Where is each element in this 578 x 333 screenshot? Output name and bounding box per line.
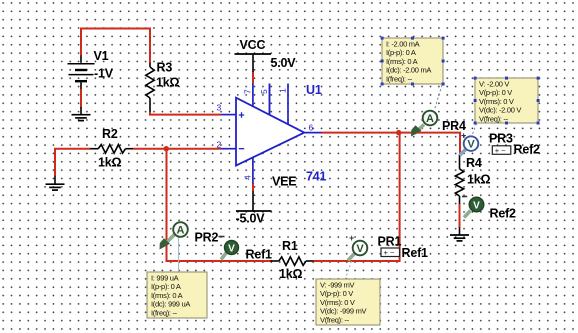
svg-text:R2: R2 xyxy=(102,127,118,141)
svg-text:Ref2: Ref2 xyxy=(490,207,517,221)
ground (below R4) xyxy=(450,227,469,241)
svg-text:VCC: VCC xyxy=(240,38,266,52)
svg-text:741: 741 xyxy=(306,170,327,184)
probe PR1 (voltage) xyxy=(348,233,367,261)
measurement box PR2 xyxy=(147,272,207,318)
ground (R2 left) xyxy=(46,176,65,191)
svg-text:I(p-p): 0 A: I(p-p): 0 A xyxy=(386,48,416,57)
probe Ref2 (green voltage probe on wire) xyxy=(462,197,484,218)
svg-text:V(p-p): 0 V: V(p-p): 0 V xyxy=(320,289,353,298)
svg-text:A: A xyxy=(426,113,434,125)
VEE power symbol xyxy=(236,210,272,212)
svg-text:-5.0V: -5.0V xyxy=(236,212,266,226)
resistor R1 xyxy=(271,257,314,266)
svg-text:4: 4 xyxy=(243,175,253,180)
wire V1 minus to ground xyxy=(80,88,82,108)
svg-text:I(rms): 0 A: I(rms): 0 A xyxy=(151,291,183,300)
wire R2 right to op-amp pin 2 xyxy=(133,148,222,150)
leader line box1 to PR4 xyxy=(435,85,443,110)
svg-text:PR2: PR2 xyxy=(195,231,219,245)
resistor R3 xyxy=(146,63,154,112)
resistor R4 xyxy=(455,155,463,204)
svg-text:V(rms): 0 V: V(rms): 0 V xyxy=(479,97,514,106)
wire VCC to pin 7 xyxy=(252,72,254,84)
node junction feedback/R2 xyxy=(164,146,169,151)
leader line box4 to PR1 xyxy=(346,261,352,279)
svg-text:V(dc): -999 mV: V(dc): -999 mV xyxy=(320,307,367,316)
svg-text:3: 3 xyxy=(217,103,222,113)
svg-text:+: + xyxy=(349,233,354,243)
wire R2 left to ground xyxy=(55,149,91,176)
svg-text:A: A xyxy=(177,225,185,237)
svg-text:I(dc): 999 uA: I(dc): 999 uA xyxy=(151,300,190,309)
probe PR4 (current) xyxy=(411,111,437,137)
svg-text:I: 999 uA: I: 999 uA xyxy=(151,274,179,283)
probe Ref1 (green voltage probe on wire) xyxy=(221,241,239,260)
svg-text:-1V: -1V xyxy=(94,67,114,81)
svg-text:V: V xyxy=(467,139,475,151)
svg-text:7: 7 xyxy=(243,89,253,94)
svg-text:1kΩ: 1kΩ xyxy=(279,267,303,281)
resistor R2 xyxy=(90,145,133,154)
svg-text:Ref1: Ref1 xyxy=(246,248,273,262)
svg-text:2: 2 xyxy=(217,140,222,150)
wire R3 bottom to op-amp pin 3 xyxy=(150,111,221,115)
svg-text:1: 1 xyxy=(278,88,288,93)
battery V1 xyxy=(68,56,95,89)
VCC power symbol xyxy=(235,53,272,55)
probe PR3 (voltage) xyxy=(460,131,479,156)
svg-text:V(rms): 0 V: V(rms): 0 V xyxy=(320,298,355,307)
measurement box PR4 xyxy=(381,37,445,86)
svg-text:1kΩ: 1kΩ xyxy=(98,156,122,170)
leader line box3 to PR2 xyxy=(178,238,180,272)
svg-text:I(freq): --: I(freq): -- xyxy=(151,308,178,317)
svg-text:+: + xyxy=(461,131,466,141)
probe PR3 reference tag Ref2 xyxy=(492,143,540,157)
svg-text:PR3: PR3 xyxy=(489,132,513,146)
svg-text:5.0V: 5.0V xyxy=(271,56,297,70)
node junction output xyxy=(396,130,401,135)
wire V1 top to R3 top xyxy=(81,29,150,64)
svg-text:R3: R3 xyxy=(157,61,173,75)
svg-text:Ref1: Ref1 xyxy=(402,246,429,260)
wire feedback left vertical xyxy=(167,149,273,261)
svg-text:Ref2: Ref2 xyxy=(514,143,541,157)
svg-text:V(dc): -2.00 V: V(dc): -2.00 V xyxy=(479,106,521,115)
svg-text:R4: R4 xyxy=(466,156,482,170)
svg-text:1kΩ: 1kΩ xyxy=(156,76,180,90)
svg-text:I(p-p): 0 A: I(p-p): 0 A xyxy=(151,282,181,291)
wire VEE to pin 4 xyxy=(252,183,254,191)
svg-text:V: V xyxy=(473,201,480,212)
svg-text:V(p-p): 0 V: V(p-p): 0 V xyxy=(479,88,512,97)
svg-text:I(dc): -2.00 mA: I(dc): -2.00 mA xyxy=(386,66,431,75)
svg-text:R1: R1 xyxy=(282,239,298,253)
svg-text:PR1: PR1 xyxy=(378,235,402,249)
svg-text:5: 5 xyxy=(259,89,269,94)
svg-text:V: V xyxy=(228,244,235,255)
svg-text:V1: V1 xyxy=(94,49,109,63)
svg-text:+ −: + − xyxy=(495,146,506,155)
svg-text:V: V xyxy=(356,243,364,255)
measurement box PR3 xyxy=(474,77,540,125)
svg-text:V(freq): --: V(freq): -- xyxy=(320,315,350,324)
op-amp U1 741 xyxy=(217,83,327,184)
wire R4 bottom to ground xyxy=(459,204,461,228)
svg-text:VEE: VEE xyxy=(272,175,296,189)
svg-text:U1: U1 xyxy=(306,83,322,97)
svg-text:V(freq): --: V(freq): -- xyxy=(479,114,509,123)
wire op-amp output to R4 xyxy=(322,133,461,155)
ground (below V1) xyxy=(72,107,91,121)
svg-text:I(freq): --: I(freq): -- xyxy=(386,74,413,83)
svg-text:V: -999 mV: V: -999 mV xyxy=(320,281,355,290)
svg-text:I: -2.00 mA: I: -2.00 mA xyxy=(386,40,420,49)
svg-text:1kΩ: 1kΩ xyxy=(467,173,491,187)
probe PR1 reference tag Ref1 xyxy=(381,246,428,260)
svg-text:I(rms): 0 A: I(rms): 0 A xyxy=(386,57,418,66)
svg-text:+ −: + − xyxy=(384,248,395,257)
svg-text:6: 6 xyxy=(309,123,314,133)
svg-text:V: -2.00 V: V: -2.00 V xyxy=(479,80,509,89)
probe PR2 (current) xyxy=(160,222,188,249)
measurement box PR1 xyxy=(316,279,380,325)
wire R1 right to output vertical xyxy=(313,133,400,261)
leader line box2 to PR3 xyxy=(472,124,477,136)
